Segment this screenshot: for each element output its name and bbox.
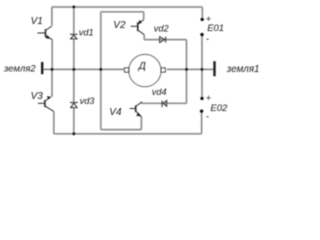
terminal dot E02 minus	[200, 110, 203, 113]
wire middle left rail from ground2 to motor	[43, 68, 125, 70]
svg-text:-: -	[206, 111, 209, 121]
junction dot mid right rail / E column	[200, 68, 203, 71]
diode vd3	[70, 103, 78, 108]
svg-text:V4: V4	[109, 107, 122, 118]
wire vd1 column lower	[73, 39, 75, 70]
wire V3 collector vertical	[51, 69, 53, 97]
wire V3 emitter vertical	[53, 111, 55, 134]
wire top rail	[52, 6, 202, 8]
wire inner loop right vertical	[186, 40, 188, 104]
wire V4 emitter vertical	[140, 117, 142, 130]
svg-text:vd1: vd1	[79, 27, 94, 37]
transistor V4	[130, 102, 142, 116]
svg-text:+: +	[206, 14, 211, 24]
junction dot mid rail / vd column	[72, 68, 75, 71]
terminal dot E02 plus	[200, 97, 203, 100]
transistor V2	[131, 20, 145, 35]
wire bottom rail	[54, 133, 202, 135]
svg-text:E01: E01	[207, 23, 224, 34]
wire vd3 column lower	[73, 108, 75, 134]
junction dot mid right rail / inner loop right	[185, 68, 188, 71]
wire vd1 column upper	[73, 7, 75, 34]
wire V1 collector vertical	[51, 7, 53, 26]
svg-text:V3: V3	[31, 91, 44, 102]
svg-text:Д: Д	[138, 61, 146, 72]
junction dot mid rail / V1V3 column	[51, 68, 54, 71]
svg-text:V1: V1	[31, 16, 43, 27]
wire vd3 column upper	[73, 69, 75, 102]
wire V2 emitter drop	[143, 35, 145, 40]
svg-text:vd3: vd3	[80, 96, 96, 106]
wire right column to E01 plus	[201, 7, 203, 19]
svg-text:земля2: земля2	[3, 63, 36, 74]
wire inner loop left vertical	[100, 12, 102, 130]
terminal dot E01 plus	[201, 18, 204, 21]
wire inner loop bottom line	[101, 129, 142, 131]
svg-text:E02: E02	[210, 103, 228, 114]
junction dot top rail / vd1	[72, 6, 75, 9]
motor circle	[129, 54, 161, 86]
junction dot bottom rail / vd3	[72, 132, 75, 135]
svg-text:-: -	[206, 34, 209, 44]
junction dot mid rail / inner loop left	[99, 68, 102, 71]
ground barземля2	[41, 62, 43, 74]
wire middle right rail to ground1	[167, 68, 214, 70]
svg-text:vd2: vd2	[154, 23, 169, 33]
diode vd4	[162, 101, 167, 108]
wire E column bottom segment	[201, 112, 203, 134]
transistor V1	[38, 26, 53, 40]
diode vd1	[70, 34, 78, 39]
transistor V3	[38, 96, 54, 111]
wire vd2 line	[144, 39, 186, 41]
wire V1 emitter vertical	[51, 39, 53, 69]
wire inner loop top line	[101, 11, 144, 13]
svg-text:+: +	[206, 93, 211, 103]
diode vd2	[160, 37, 166, 43]
motor brush right square	[161, 68, 165, 72]
ground bar земля1	[213, 61, 215, 76]
wire vd4 line	[142, 102, 187, 104]
svg-text:vd4: vd4	[152, 87, 167, 97]
svg-text:земля1: земля1	[226, 64, 260, 75]
motor brush left square	[125, 68, 129, 72]
wire E column mid segment	[201, 36, 203, 98]
svg-text:V2: V2	[113, 20, 126, 31]
terminal dot E01 minus	[200, 33, 203, 36]
wire V2 top vertical	[143, 12, 145, 20]
